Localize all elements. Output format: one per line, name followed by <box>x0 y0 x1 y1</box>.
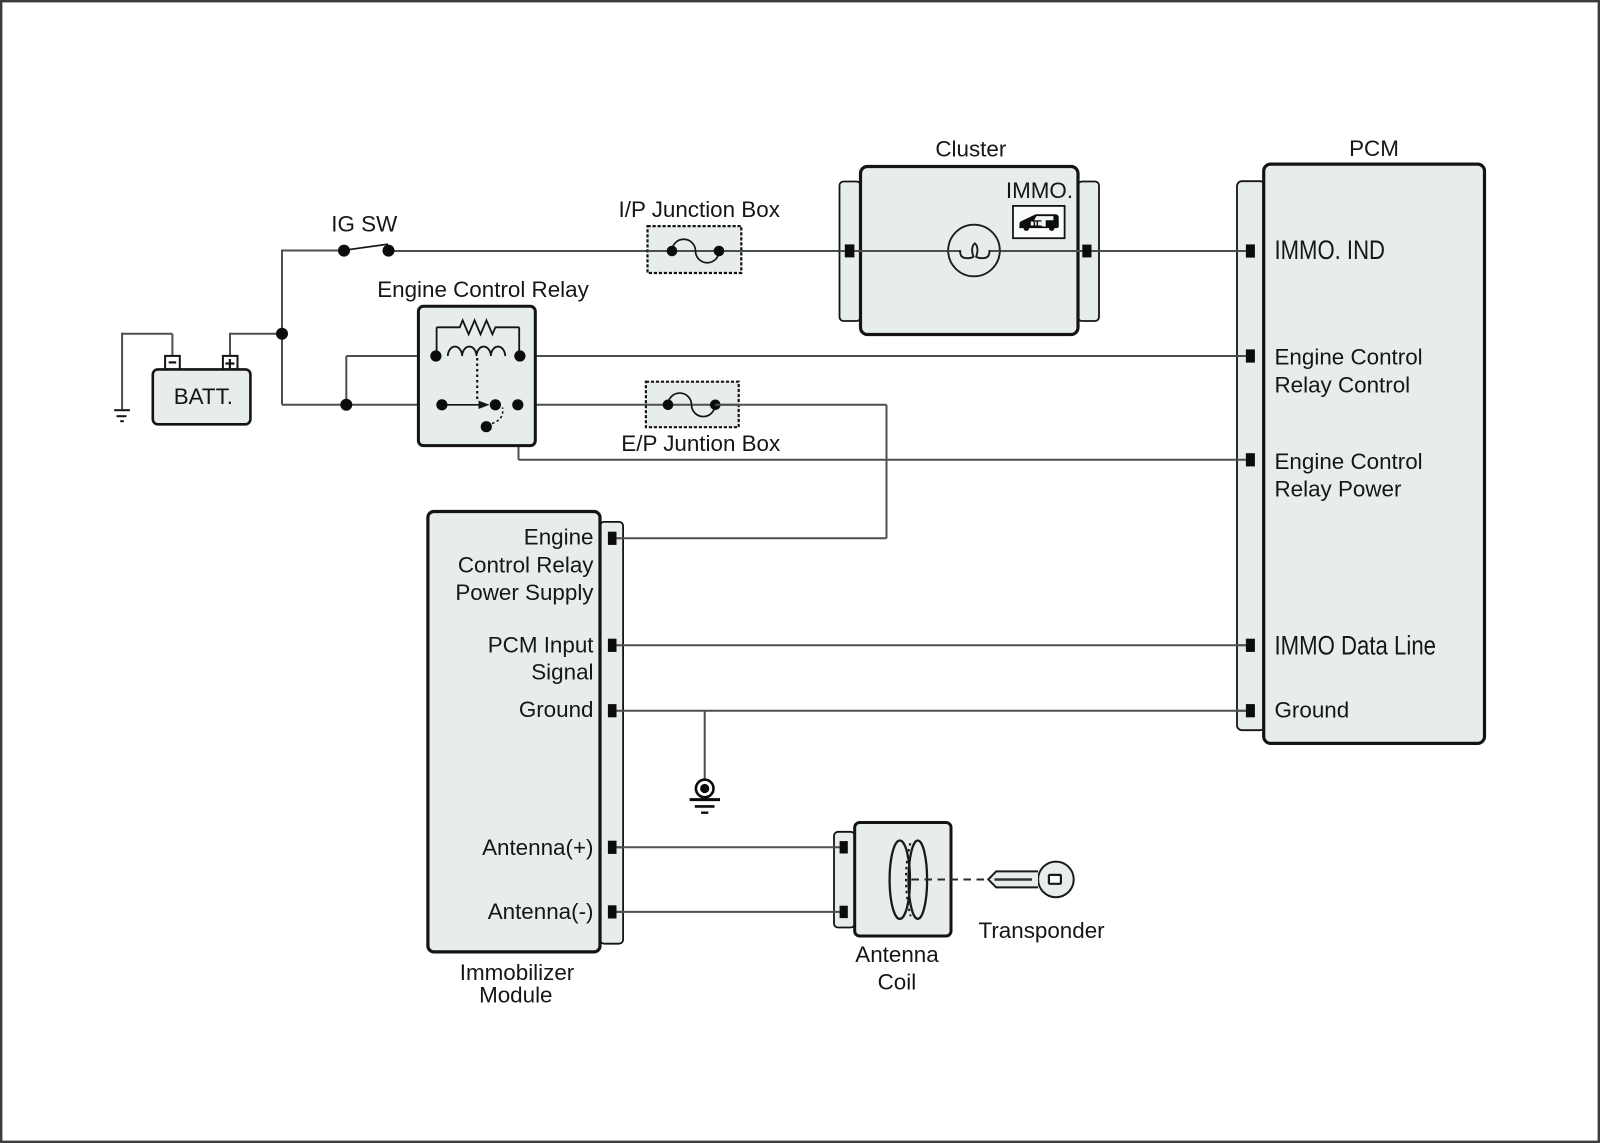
svg-text:IMMO Data Line: IMMO Data Line <box>1275 631 1437 661</box>
svg-text:Engine: Engine <box>524 524 594 549</box>
svg-text:IG SW: IG SW <box>331 212 398 237</box>
relay contact arrow <box>442 404 479 406</box>
wire relay coil right to PCM Engine Control Relay Control <box>520 355 1246 357</box>
wire immobilizer PCM Input Signal to PCM IMMO Data Line <box>617 644 1247 646</box>
svg-text:PCM Input: PCM Input <box>488 632 595 657</box>
wire to left ground <box>121 333 123 410</box>
svg-text:Cluster: Cluster <box>935 137 1006 162</box>
transponder key blade <box>988 871 1038 887</box>
wire immobilizer Ground to PCM Ground <box>617 710 1247 712</box>
wire inside cluster <box>840 250 1247 252</box>
wire battery minus vertical <box>171 334 173 357</box>
svg-text:Immobilizer: Immobilizer <box>460 960 575 985</box>
svg-text:BATT.: BATT. <box>174 384 233 409</box>
wire Antenna(+) <box>617 846 840 848</box>
wire lower feed to relay contact <box>282 404 442 406</box>
immobilizer module connector tab <box>600 522 623 944</box>
transponder key hole <box>1049 875 1061 884</box>
switch IG SW lever <box>345 244 389 250</box>
switch IG SW contact dots <box>338 245 350 257</box>
svg-text:PCM: PCM <box>1349 136 1399 161</box>
svg-text:Relay Power: Relay Power <box>1275 477 1402 502</box>
cluster box <box>861 167 1079 335</box>
immobilizer module box <box>428 512 600 952</box>
wire relay power to PCM Engine Control Relay Power <box>519 459 1247 461</box>
fuse I/P Junction Box <box>648 226 742 273</box>
svg-text:Transponder: Transponder <box>979 918 1106 943</box>
relay Engine Control Relay box <box>418 306 535 445</box>
relay dashed contact arc <box>492 408 503 424</box>
svg-text:Coil: Coil <box>878 969 917 994</box>
lamp filament <box>960 243 989 258</box>
battery plus sign <box>225 359 234 368</box>
svg-text:Engine Control Relay: Engine Control Relay <box>377 277 589 302</box>
wire Antenna(-) <box>617 911 840 913</box>
relay resistor <box>437 320 520 334</box>
svg-text:Power Supply: Power Supply <box>455 580 594 605</box>
PCM pin Engine Control Relay Power <box>1246 453 1255 466</box>
svg-text:IMMO. IND: IMMO. IND <box>1275 235 1386 265</box>
ground symbol (earth) <box>696 780 714 798</box>
cluster pin left <box>845 244 855 257</box>
relay armature dashed link <box>476 358 478 401</box>
wire to immobilizer Engine Control Relay Power Supply pin <box>617 537 887 539</box>
wire relay coil left feed vertical <box>345 356 347 405</box>
PCM pin Engine Control Relay Control <box>1246 349 1255 362</box>
PCM pin IMMO. IND <box>1246 244 1255 257</box>
node relay feed junction <box>340 399 352 411</box>
immobilizer pin Ground <box>608 704 617 717</box>
PCM pin Ground <box>1246 704 1255 717</box>
wire relay contact out to E/P fuse <box>495 404 668 406</box>
car icon immobilizer indicator <box>1013 206 1065 238</box>
fuse E/P Juntion Box <box>646 382 739 428</box>
lamp IMMO. indicator bulb <box>948 225 1000 277</box>
node battery junction <box>276 328 288 340</box>
relay contact dots <box>436 399 447 410</box>
dashed axis to transponder <box>912 879 989 881</box>
wire relay power contact down <box>518 405 520 460</box>
svg-text:Antenna(+): Antenna(+) <box>482 835 593 860</box>
cluster connector tab left <box>840 182 861 322</box>
cluster pin right <box>1082 245 1091 258</box>
wire E/P output down <box>886 405 888 539</box>
wire stubs across antenna tab <box>833 847 841 912</box>
immobilizer pin Engine Control Relay Power Supply <box>608 532 617 545</box>
svg-text:Antenna: Antenna <box>855 942 939 967</box>
svg-text:Engine Control: Engine Control <box>1275 449 1423 474</box>
cluster connector tab right <box>1078 182 1099 322</box>
antenna coil pins <box>840 841 848 853</box>
battery minus sign <box>169 361 177 363</box>
antenna coil connector tab <box>834 832 855 928</box>
svg-text:E/P Juntion Box: E/P Juntion Box <box>621 431 780 456</box>
wire main vertical from switch to lower feed <box>281 251 283 405</box>
wire battery minus horizontal <box>121 333 172 335</box>
wire battery plus vertical <box>229 334 231 357</box>
fuse element I/P <box>672 239 719 263</box>
svg-text:Ground: Ground <box>519 697 594 722</box>
immobilizer pin PCM Input Signal <box>608 639 617 652</box>
relay coil pins <box>430 350 441 361</box>
wire stubs across PCM tab <box>1236 251 1247 711</box>
fuse element E/P <box>668 393 715 417</box>
wire cluster bulb to PCM IMMO. IND <box>989 250 1247 252</box>
immobilizer pin Antenna(-) <box>608 905 617 918</box>
transponder key head <box>1038 862 1074 898</box>
wire battery plus horizontal <box>229 333 282 335</box>
svg-text:Signal: Signal <box>531 659 593 684</box>
svg-text:Engine Control: Engine Control <box>1275 345 1423 370</box>
battery BATT. <box>165 356 180 369</box>
antenna coil box <box>855 823 951 937</box>
svg-text:Control Relay: Control Relay <box>458 552 594 577</box>
wire stubs across immobilizer tab <box>616 538 624 912</box>
svg-text:Relay Control: Relay Control <box>1275 373 1411 398</box>
wire IG SW to cluster bulb <box>389 250 961 252</box>
relay resistor leads <box>437 327 520 356</box>
wire E/P fuse output right <box>715 404 886 406</box>
wire relay coil left feed horizontal <box>346 355 436 357</box>
svg-text:IMMO.: IMMO. <box>1006 178 1073 203</box>
PCM box <box>1264 164 1485 743</box>
svg-text:Module: Module <box>479 983 552 1008</box>
ground (battery) <box>114 410 130 421</box>
antenna coil winding <box>890 841 910 919</box>
svg-text:Ground: Ground <box>1275 698 1350 723</box>
relay coil <box>448 347 505 356</box>
svg-text:Antenna(-): Antenna(-) <box>488 899 594 924</box>
PCM pin IMMO Data Line <box>1246 639 1255 652</box>
wire to IG SW <box>281 250 344 252</box>
immobilizer pin Antenna(+) <box>608 841 617 854</box>
wire ground tap down <box>704 711 706 780</box>
PCM connector tab <box>1237 181 1265 730</box>
svg-text:I/P Junction Box: I/P Junction Box <box>619 197 780 222</box>
